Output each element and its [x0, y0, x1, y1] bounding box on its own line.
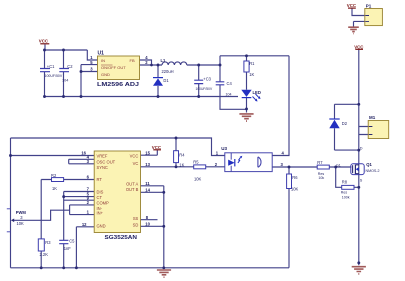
svg-text:DIS: DIS [97, 190, 104, 195]
svg-text:G1: G1 [336, 163, 341, 167]
svg-text:13: 13 [145, 162, 150, 167]
svg-text:RT: RT [97, 177, 103, 182]
svg-text:10: 10 [145, 221, 150, 226]
svg-text:104: 104 [226, 92, 232, 96]
svg-text:SYNC: SYNC [97, 165, 108, 170]
svg-text:15: 15 [145, 150, 150, 155]
svg-text:U1: U1 [98, 51, 105, 57]
svg-text:D1: D1 [163, 78, 169, 83]
svg-text:R2: R2 [51, 173, 57, 178]
svg-text:VCC: VCC [39, 39, 49, 44]
svg-text:+C3: +C3 [203, 76, 211, 81]
svg-text:VC: VC [133, 161, 139, 166]
svg-text:VCC: VCC [354, 44, 364, 49]
svg-text:11: 11 [145, 181, 150, 186]
svg-text:R3: R3 [45, 240, 51, 245]
svg-text:100UF/50V: 100UF/50V [196, 87, 213, 91]
svg-text:M1: M1 [369, 115, 376, 120]
svg-text:D2: D2 [342, 121, 348, 126]
svg-text:10K: 10K [194, 176, 202, 181]
svg-text:2.2K: 2.2K [40, 252, 49, 257]
svg-text:U3: U3 [221, 146, 227, 151]
svg-text:SD: SD [133, 222, 139, 227]
svg-text:10k: 10k [318, 176, 324, 180]
svg-text:Res: Res [341, 190, 348, 194]
svg-text:LED: LED [253, 90, 261, 95]
svg-text:SG3525AN: SG3525AN [105, 235, 138, 241]
svg-text:C4: C4 [227, 81, 233, 86]
svg-text:VCC: VCC [130, 154, 139, 159]
svg-text:R5: R5 [193, 159, 199, 164]
svg-text:C5: C5 [69, 238, 75, 243]
svg-text:P1: P1 [366, 3, 372, 8]
svg-text:FB: FB [130, 58, 135, 63]
svg-text:R4: R4 [179, 153, 185, 158]
svg-text:Q1: Q1 [366, 162, 372, 167]
svg-text:R8: R8 [342, 179, 348, 184]
svg-text:NMOS-2: NMOS-2 [366, 169, 380, 173]
svg-text:D: D [360, 146, 363, 150]
svg-text:GND: GND [101, 72, 110, 77]
svg-text:VREF: VREF [97, 154, 108, 159]
svg-text:SS: SS [133, 216, 139, 221]
svg-text:R6: R6 [292, 175, 298, 180]
svg-text:OSC OUT: OSC OUT [97, 159, 116, 164]
svg-text:100k: 100k [342, 195, 350, 199]
svg-text:ON/OFF OUT: ON/OFF OUT [101, 65, 126, 70]
svg-text:OUT A: OUT A [126, 182, 138, 187]
svg-text:12: 12 [82, 222, 87, 227]
svg-text:104: 104 [62, 79, 68, 83]
svg-text:10K: 10K [291, 186, 299, 191]
svg-text:1K: 1K [179, 162, 184, 167]
svg-text:1nF: 1nF [64, 246, 72, 251]
svg-text:GND: GND [97, 223, 106, 228]
svg-text:VCC: VCC [347, 3, 357, 8]
svg-text:220uH: 220uH [162, 69, 174, 74]
svg-text:VCC: VCC [152, 145, 162, 150]
svg-text:R1: R1 [249, 61, 255, 66]
svg-text:14: 14 [145, 187, 150, 192]
svg-text:S: S [360, 178, 363, 182]
svg-text:L1: L1 [161, 58, 167, 63]
svg-text:100UF/50V: 100UF/50V [45, 74, 63, 78]
svg-text:C2: C2 [67, 64, 73, 69]
svg-text:IN: IN [101, 58, 105, 63]
svg-text:1K: 1K [249, 72, 254, 77]
svg-text:CT: CT [97, 195, 103, 200]
svg-text:1K: 1K [52, 186, 57, 191]
svg-text:IN+: IN+ [97, 211, 104, 216]
svg-text:OUT B: OUT B [126, 187, 139, 192]
svg-text:R7: R7 [317, 160, 323, 165]
svg-text:+C1: +C1 [47, 64, 55, 69]
svg-text:LM2596 ADJ: LM2596 ADJ [97, 82, 139, 88]
svg-text:10K: 10K [17, 221, 25, 226]
